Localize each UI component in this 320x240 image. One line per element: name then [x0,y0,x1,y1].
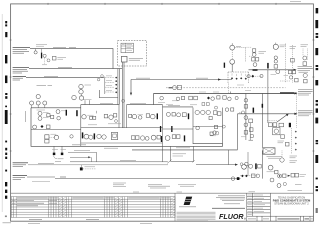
steam header line y93.5 [154,93,297,95]
third party text block [32,182,126,187]
pipe line y178 [27,176,55,178]
pipe line L2 [29,68,122,70]
signal dash to right [235,47,246,49]
square on dashed line [177,85,181,89]
inner vertical divider [162,129,164,162]
sub box row2 [196,126,200,130]
off-page text block B [298,90,313,95]
T junction tick [230,92,232,94]
stray tag texts [271,73,277,75]
small tag rows [290,156,298,163]
square pair [252,58,255,61]
stamp text below revision table [29,219,42,221]
drop vertical x245.9 [245,94,247,141]
manifold valves [231,77,247,80]
black valve stem [76,110,78,116]
hanger cluster 2 [176,97,180,101]
bottom long line [132,149,238,151]
condensate return line y113 [238,113,297,115]
sheet left edge [1,14,3,212]
pipe line J [70,161,168,163]
tag text top [37,85,47,87]
bubble on drop [244,99,248,103]
sub box right [193,108,223,144]
incoming dashes [247,46,252,48]
bubble [247,75,250,78]
square top [252,49,255,52]
left box right wall [80,105,82,147]
stem tick [35,49,37,51]
control valve body black [41,53,42,59]
inner divider h1 left [31,128,81,130]
bubble small [289,76,292,79]
lower bubbles [277,184,281,188]
pipe line L3 [26,77,104,79]
bubble [276,70,280,74]
signal dashed vertical b [292,45,294,83]
label block LP CONDENSATE B [13,67,29,73]
vertical note text left of box [25,111,27,122]
bubble mid pair [274,56,277,59]
label block E [13,176,27,180]
M1 line tag [136,77,150,79]
mini table in dashed box [121,43,133,52]
title block divider [246,193,248,221]
interlock dashed box [118,41,147,66]
line number tag on L1 [53,46,66,48]
level bubble big [273,44,278,49]
zone tick marks right border [312,39,314,41]
hanger cluster 3 [189,96,193,100]
square on drop [244,105,248,109]
small square w dashes [249,119,253,123]
approvals mini table [247,195,271,197]
double standpipe left [117,69,119,105]
vendor logo diamond [184,197,193,205]
slanted drain line [277,114,288,122]
hanger cluster 6 [235,96,238,99]
left small items [249,128,253,132]
title strip top line [11,192,314,194]
heavy insulated segment [280,92,294,94]
black valve on line [253,108,255,113]
center bubbles [268,165,273,170]
tag texts [259,51,267,53]
box top labels [100,102,113,104]
square in square [111,132,117,139]
pump suction drop [261,94,263,148]
crossing signal dash [227,84,229,94]
label right of device [129,57,143,59]
pipe line K [28,164,168,166]
hanger cluster 5 [223,96,226,99]
off-page text block C [298,110,313,115]
bubble on dashed line [173,86,177,90]
riser stems to box top [84,100,86,104]
corner diagonal [167,160,171,164]
hanger cluster 4 w dark diamond [207,97,210,100]
black valve on drop [267,63,269,69]
left box top edge [31,107,81,109]
signal dashes down [231,50,233,59]
tag texts [199,91,206,93]
row1 instruments [37,109,46,111]
row2 right [131,136,135,140]
svg-text:STEAM BLOWDOWN UNIT 2: STEAM BLOWDOWN UNIT 2 [274,202,309,206]
mid box wall at standpipe [118,105,120,128]
row2 middle instruments [82,132,84,138]
instrument bubble PI [34,51,37,54]
pipe line L1 [30,49,113,69]
bubble [260,74,263,77]
dark dash on signal line [169,87,173,89]
instrument bubble [47,59,50,62]
approvals text [248,195,265,215]
left edge punch marks [5,21,7,23]
revision table column lines section 3 [124,197,126,218]
square below pair [274,65,278,69]
instrument bubble PV [230,59,235,64]
corner micro text [290,1,301,3]
left group [242,164,247,169]
drain dash line [246,75,262,77]
pipe line M1 horizontal [131,79,232,81]
riser bars on divider [160,126,161,132]
revision table outline [11,197,175,218]
dashed to bubble [49,136,54,138]
riser corner x237 [237,114,239,150]
black valve on suction [262,104,264,108]
HP condensate header line [249,69,296,71]
row1 sub box [195,110,199,114]
instrument bubble PIC [230,45,235,50]
circle in sub box lower [213,131,217,135]
secondary vertical [247,152,249,176]
right box train [166,112,170,116]
bubble below [252,53,256,57]
drain dashes below cluster [44,58,46,65]
bracket branch 4 [105,91,114,93]
legal paragraph [177,212,216,220]
riser from bottom line [228,150,230,165]
inner divider h1 mid [81,127,163,129]
revision entry text row1 [17,200,34,202]
hanger cluster 1 [160,96,164,100]
bubble stack on drop [244,116,248,120]
note text [295,183,302,185]
sample bracket stem [104,77,106,94]
header arrow [294,69,297,71]
line tags below [60,177,196,188]
header elbow drop [153,94,155,105]
black drain squares [53,153,56,156]
dash diamond column [291,128,293,154]
standpipe top rings [122,99,125,102]
equipment enclosure box [31,108,223,147]
bracket branch 2 [105,81,114,83]
black inline valve [237,177,240,180]
zone tick marks top border [47,3,49,5]
revision hatch column slashes [59,197,62,217]
small squares under [202,103,205,106]
tag text right of square [57,56,66,58]
bubble row on vessel top [30,101,34,105]
left train [82,115,86,119]
lower train bottom line [81,142,163,144]
svg-text:FLUOR: FLUOR [219,212,244,221]
right edge punch marks [316,8,319,13]
bubble lower [253,63,257,67]
signal dashed line y87.8 [166,87,286,89]
tag text above [245,89,251,91]
M1 elbow drop with arrow [130,80,132,94]
to flare label [176,147,190,149]
FO squares [45,135,49,139]
drop line from header [267,70,269,123]
branch tag texts [106,76,112,90]
text under logo [179,206,196,208]
square pair [288,70,291,73]
inline bubble [231,177,235,181]
bracket branch 3 [105,86,114,88]
right aligned note lines [212,196,245,209]
square low [295,78,299,82]
drop stems to drains [53,146,55,152]
revision table column lines section 1 [13,197,15,218]
bracket branch 1 [105,77,114,79]
collection corner line [99,90,118,98]
bottom band text [248,218,313,220]
square device in dashed box [121,56,127,62]
inner divider h1 right [163,128,194,130]
drain labels [58,158,64,160]
label block C [13,76,26,80]
dashed drain w diamonds [240,175,258,177]
drop pipe pair from device [121,62,123,128]
dash segment [280,80,290,82]
bubble [36,95,40,99]
black square vent [80,167,83,170]
spec diamond [251,75,254,78]
bubble + square right [303,73,307,77]
cluster right of sub box top [225,108,229,112]
mid box top right half [127,104,163,106]
bottom band cells [257,216,310,221]
pump box [263,148,275,154]
revision table column lines section 2 [68,197,70,218]
dashes diag [46,57,48,59]
revision table row lines [11,198,175,200]
inline fitting bubbles [97,78,100,81]
zone tick marks left border [10,39,12,41]
signal dashed vertical right [295,92,297,128]
isolated bubble w signal [280,158,284,162]
spec break diamonds [115,77,117,94]
box label above bottom [72,144,86,146]
heavy segment [253,69,258,71]
sub box inner line [193,125,223,127]
signal dashed vertical a [285,44,287,84]
package box G [171,147,194,162]
valve manifold dashed box [228,72,249,84]
M1 flow arrow [218,78,221,80]
stem to box [231,64,233,72]
dark valve stub [224,63,225,68]
labels above drains [52,148,58,150]
small fittings above line [70,156,89,158]
revision header shading [17,197,48,199]
right column symbols [268,123,272,127]
tags right [290,46,296,48]
vertical feed [261,150,263,178]
text above line [36,44,47,46]
line tags [38,163,54,165]
right train [129,114,132,117]
right box top [163,106,194,108]
mid box top left half [81,104,119,106]
label block LP STEAM A [13,48,30,54]
under divider marks [33,125,37,129]
drain hook [54,156,57,159]
small bubble w dash [242,111,245,114]
square instrument [52,56,56,60]
instrument bubble TI [43,54,46,57]
label block D [13,163,28,167]
off-page text block A [298,67,313,73]
chain bubbles x81 [79,84,83,88]
